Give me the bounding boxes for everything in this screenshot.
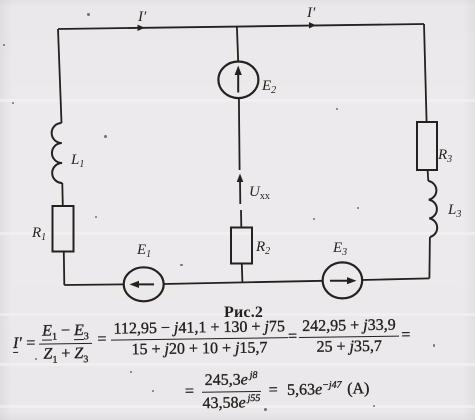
label Uxx (249, 184, 270, 202)
label L1 (70, 152, 84, 170)
label I' left (137, 9, 147, 25)
label I' right (306, 5, 316, 21)
wire: bottom middle segment (164, 281, 323, 284)
scanner streak bands (0, 99, 475, 102)
current arrow I' left on top wire (138, 25, 145, 31)
current arrow I' right on top wire (309, 22, 316, 28)
label E1 (136, 242, 151, 260)
voltage arrow Uxx (237, 174, 244, 205)
svg-text:E3: E3 (332, 240, 347, 258)
svg-text:E1: E1 (136, 242, 151, 260)
formula line 2 (185, 367, 370, 414)
svg-text:L3: L3 (447, 202, 461, 220)
inductor L3 (428, 181, 437, 237)
label E2 (261, 78, 276, 96)
label E3 (332, 240, 347, 258)
source E2 (218, 62, 258, 99)
wire: middle vertical above R2 (240, 210, 242, 228)
source E3 (323, 262, 363, 298)
svg-text:Uxx: Uxx (249, 184, 270, 202)
wire: right vertical upper segment (424, 24, 427, 122)
wire: bottom right segment (362, 278, 429, 280)
source E1 (124, 267, 164, 301)
resistor R2 (231, 228, 252, 264)
label R3 (437, 147, 452, 165)
inductor L1 (52, 123, 63, 183)
wire: left vertical lower segment (63, 252, 66, 286)
svg-text:I′: I′ (137, 9, 147, 25)
caption Рис.2 (224, 304, 263, 322)
wire: middle vertical below E2 (238, 98, 241, 170)
svg-text:R1: R1 (31, 225, 46, 243)
wire: middle vertical below R2 to bottom wire (241, 264, 244, 283)
label L3 (447, 202, 461, 220)
svg-text:R3: R3 (437, 147, 452, 165)
label R1 (31, 225, 46, 243)
label R2 (255, 239, 270, 257)
wire: middle vertical from top wire to E2 (237, 27, 238, 62)
svg-text:I′: I′ (306, 5, 316, 21)
wire: top horizontal from left corner to right corner (58, 24, 424, 29)
wire: right vertical between R3 and L3 (427, 170, 430, 181)
wire: left vertical upper segment (58, 29, 62, 123)
svg-text:L1: L1 (70, 152, 84, 170)
formula line 1 (13, 313, 411, 363)
svg-text:R2: R2 (255, 239, 270, 257)
wire: bottom left segment (64, 283, 124, 286)
paper specks (87, 13, 90, 16)
wire: right vertical lower segment (428, 237, 431, 278)
resistor R3 (417, 122, 437, 170)
wire: left vertical between L1 and R1 (61, 183, 64, 206)
resistor R1 (53, 206, 74, 252)
svg-text:E2: E2 (261, 78, 276, 96)
